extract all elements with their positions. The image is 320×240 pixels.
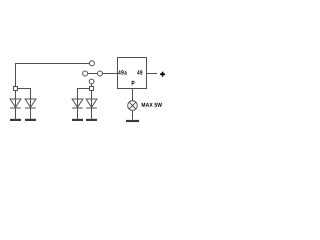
wire: switch to relay terminal 49a <box>102 73 117 75</box>
ground for pilot lamp <box>126 120 139 122</box>
wire: relay terminal 49 to battery plus <box>147 73 158 75</box>
pin label P <box>132 81 135 85</box>
switch S1 throw contact (lower) <box>89 79 94 84</box>
switch S1 throw contact (upper) <box>89 61 94 66</box>
wire: right terminal to first diode branch <box>78 89 90 100</box>
ground for D4 <box>86 119 97 121</box>
switch S1 bridge <box>88 73 98 75</box>
switch S1 output contact (right) <box>97 71 102 76</box>
diode D3 <box>72 99 83 119</box>
ground for D1 <box>10 119 21 121</box>
wire: pilot lamp to ground <box>132 110 134 119</box>
wire: lower throw to right lamp terminal <box>91 84 93 87</box>
flasher relay K1 box <box>118 58 147 89</box>
battery plus terminal <box>160 72 165 77</box>
pilot lamp E1 <box>128 101 138 111</box>
wire: top horizontal from left lamp group to switch throw <box>16 63 90 65</box>
switch S1 pole contact (left) <box>83 71 88 76</box>
terminal: left lamp group square <box>14 87 18 91</box>
value label MAX 5W <box>142 103 162 107</box>
wire: left terminal to second diode branch <box>18 89 31 100</box>
terminal: right lamp group square <box>90 87 94 91</box>
pin label 49 <box>137 70 142 74</box>
wire: right terminal down to second diode <box>91 91 93 100</box>
diode D1 <box>10 99 21 119</box>
diode D4 <box>86 99 97 119</box>
pin label 49a <box>118 70 127 74</box>
wire: left vertical drop to left lamp terminal <box>15 63 17 87</box>
diode D2 <box>25 99 36 119</box>
ground for D2 <box>25 119 36 121</box>
wire: relay terminal P to pilot lamp <box>132 89 134 101</box>
ground for D3 <box>72 119 83 121</box>
wire: left terminal down to first diode <box>15 91 17 100</box>
